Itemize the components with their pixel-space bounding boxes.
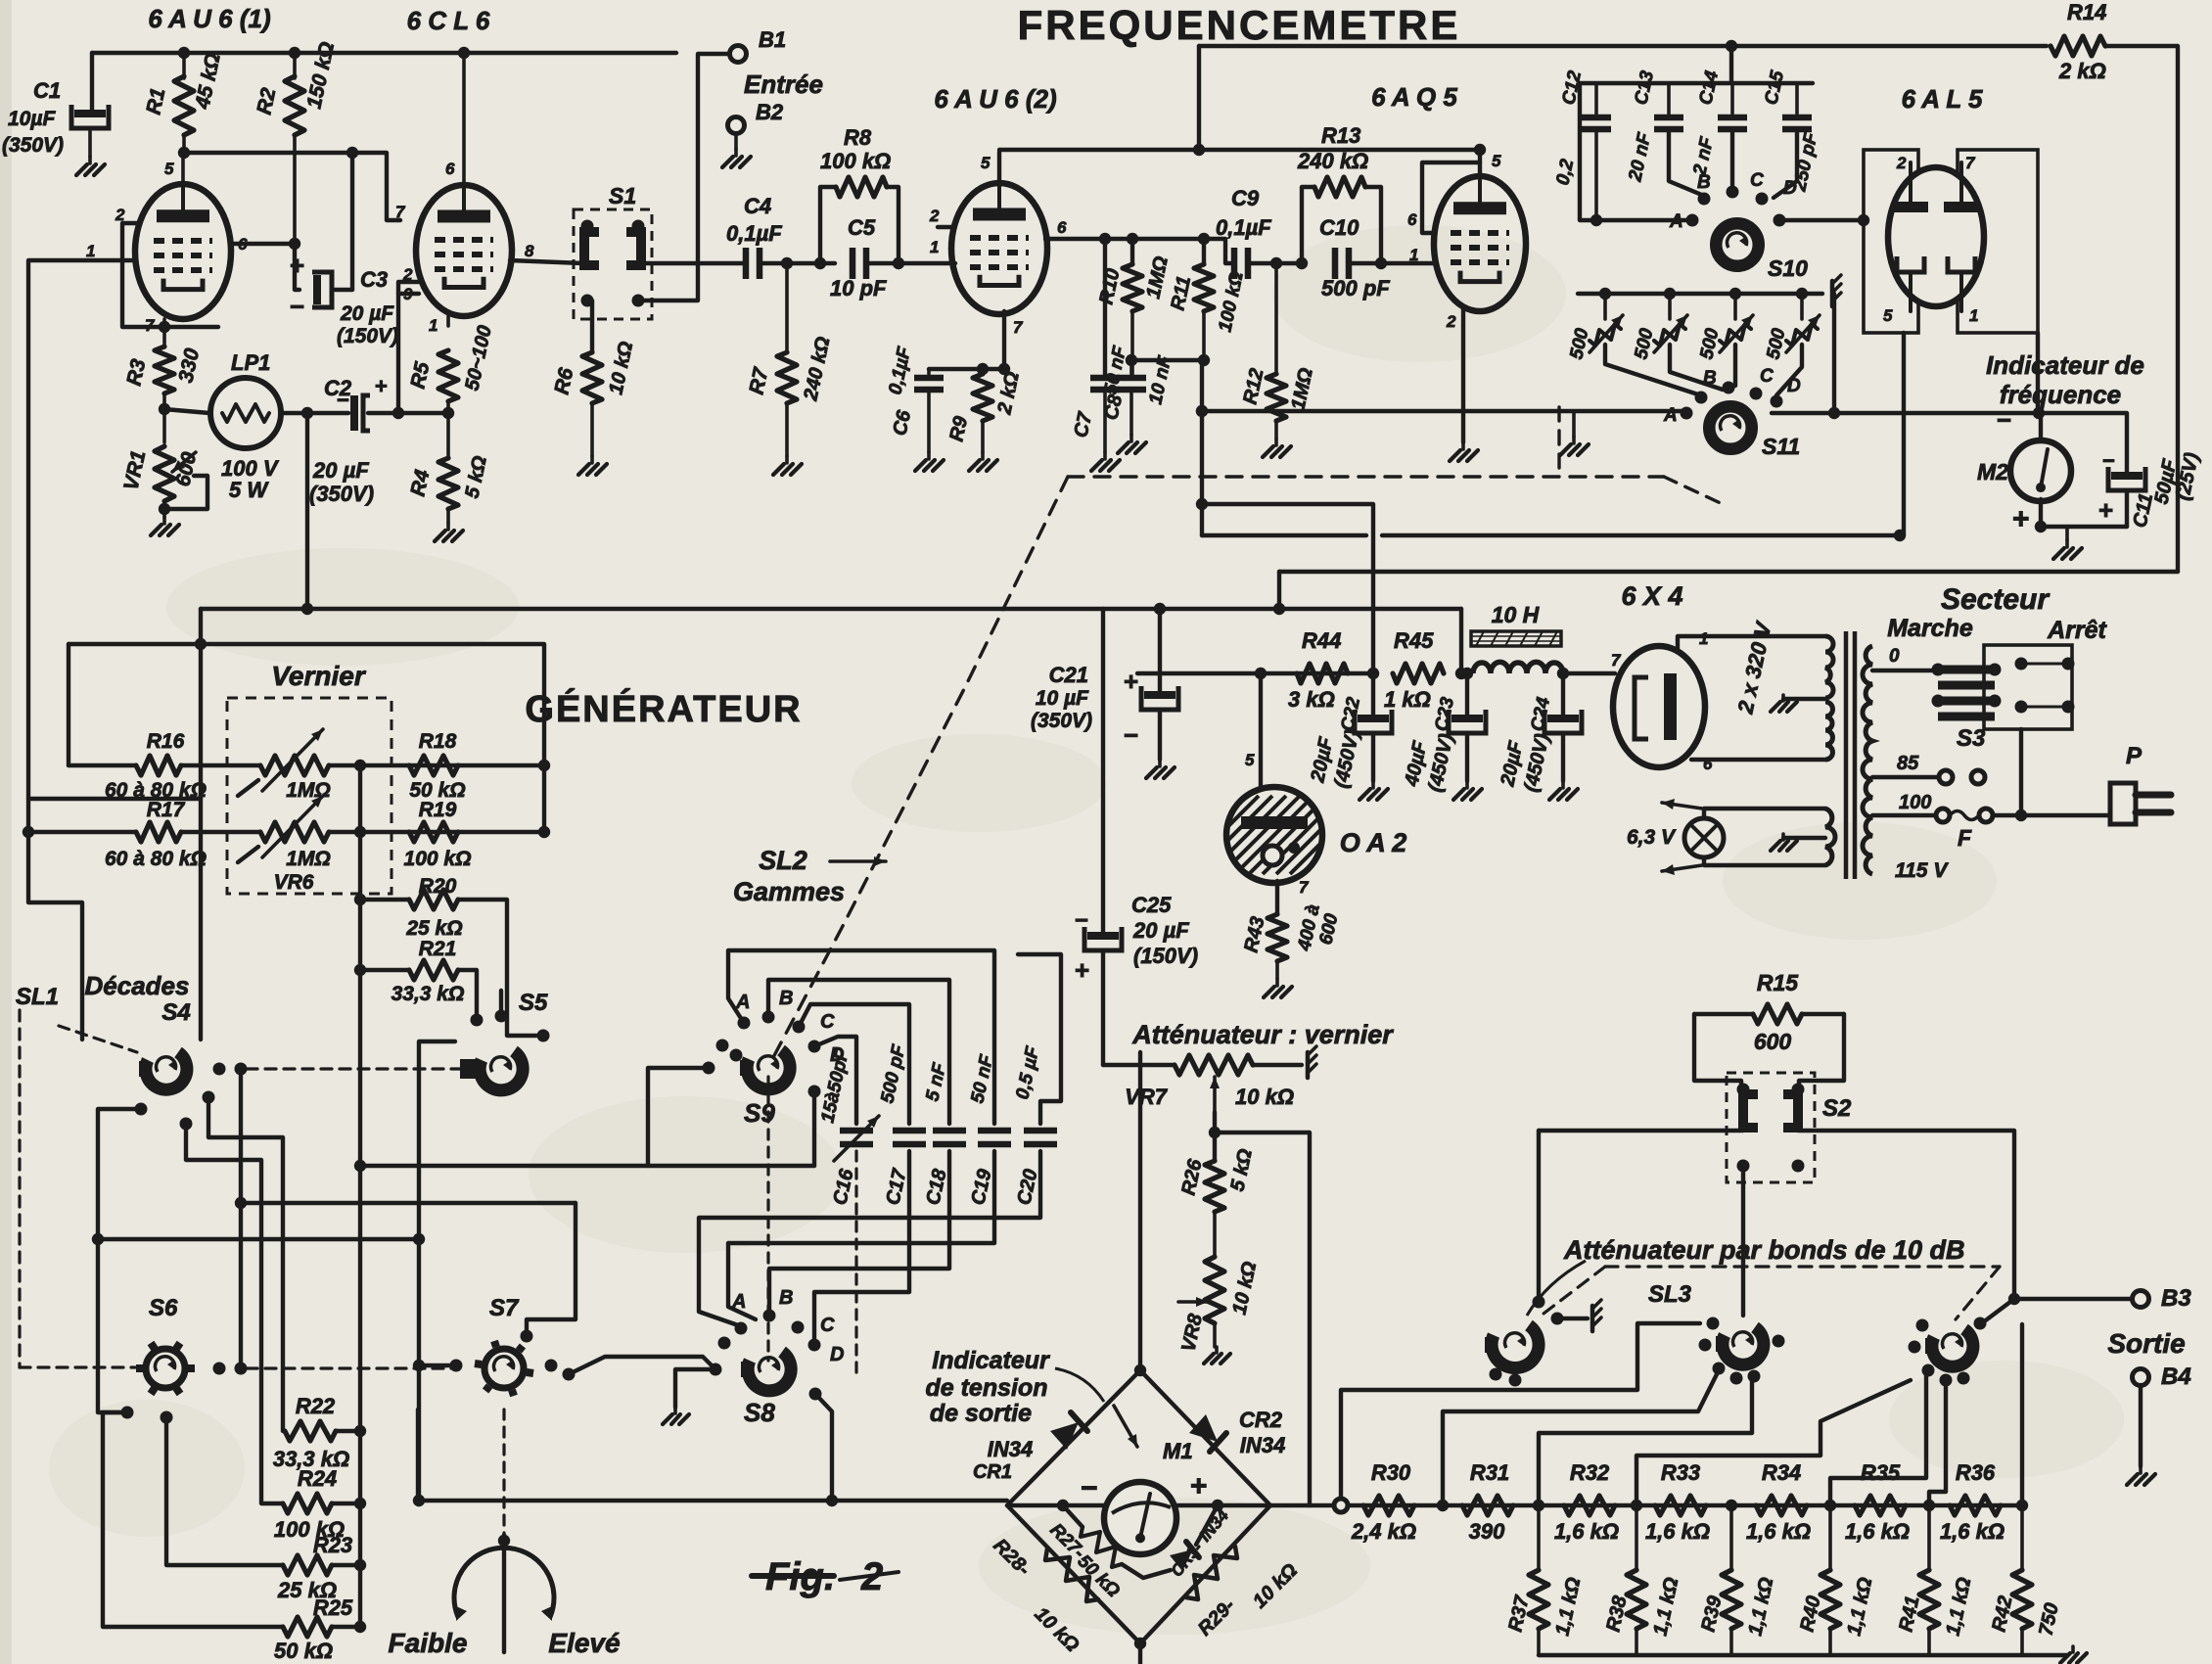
wire R10/R11 bottom bus <box>1131 358 1204 362</box>
svg-text:60 à 80 kΩ: 60 à 80 kΩ <box>105 848 207 870</box>
resistor R34 <box>1756 1496 1807 1515</box>
wire x246 bus S4-S6 <box>239 1069 243 1368</box>
svg-text:−: − <box>290 292 304 321</box>
wire S6 bottom to R23 <box>166 1417 283 1565</box>
resistor R39 <box>1729 1505 1733 1570</box>
terminal B4 <box>2133 1369 2149 1386</box>
svg-text:Décades: Décades <box>85 971 190 1000</box>
meter M2 <box>2039 413 2043 443</box>
svg-text:25 kΩ: 25 kΩ <box>405 917 462 940</box>
svg-text:+: + <box>1190 1470 1208 1502</box>
svg-text:C: C <box>820 1011 835 1033</box>
svg-text:50 kΩ: 50 kΩ <box>274 1639 333 1663</box>
capacitor C13 <box>1667 83 1671 114</box>
ground 6AQ5 cathode <box>1461 442 1465 449</box>
resistor R37 <box>1537 1505 1541 1570</box>
svg-text:R35: R35 <box>1861 1460 1901 1485</box>
wire 85 tap <box>1872 775 1939 779</box>
capacitor C9 <box>1231 248 1238 279</box>
dashed SL2 shaft diagonal <box>770 477 1068 1063</box>
svg-text:B3: B3 <box>2161 1285 2191 1312</box>
wire pin2 cathode ground <box>1461 309 1465 442</box>
ground VR1 <box>162 517 166 524</box>
node R1 plate <box>178 147 190 159</box>
switch SL3 rotary 1 <box>1537 1131 1541 1302</box>
svg-text:−: − <box>337 388 349 412</box>
resistor R6 <box>587 300 592 352</box>
lamp 6.3V <box>1704 809 1825 818</box>
node C9 out <box>1270 257 1282 269</box>
svg-text:6 A L 5: 6 A L 5 <box>1902 84 1983 114</box>
wire y1191 link <box>360 1164 814 1168</box>
capacitor C17 <box>893 1128 926 1134</box>
svg-text:R18: R18 <box>419 730 457 753</box>
wire R15 box <box>1694 1014 1741 1088</box>
transformer 6.3V winding <box>1825 809 1835 865</box>
node C2 left junction <box>301 407 313 419</box>
capacitor C3 <box>295 244 300 290</box>
capacitor C12 <box>1594 83 1598 114</box>
svg-text:1,6 kΩ: 1,6 kΩ <box>1554 1519 1619 1544</box>
svg-text:B: B <box>779 1287 793 1309</box>
svg-text:7: 7 <box>1013 318 1024 337</box>
wire S4 contact drops <box>208 1097 283 1431</box>
capacitor C19 <box>978 1128 1011 1134</box>
ground C24 <box>1561 781 1565 788</box>
wire 6X4 pin1 <box>1678 636 1825 650</box>
ground pots bus <box>1830 281 1835 306</box>
resistor R15 <box>1694 1012 1753 1016</box>
svg-text:P: P <box>2126 743 2143 769</box>
svg-text:R8: R8 <box>844 125 872 150</box>
potentiometer VR7 <box>1103 1063 1173 1067</box>
tube 6AU6(2) V3 <box>951 183 1047 314</box>
switch S11 contacts <box>1681 407 1693 420</box>
svg-text:CR1: CR1 <box>973 1461 1012 1483</box>
wire y1266 link <box>98 1237 419 1241</box>
svg-text:85: 85 <box>1897 753 1919 774</box>
wire pots bus to M2 line <box>1832 294 1836 413</box>
ground C22 <box>1371 781 1375 788</box>
svg-text:C1: C1 <box>33 78 61 103</box>
wire S9 nest D to C16 <box>814 1037 856 1124</box>
capacitor C21 <box>1154 603 1166 615</box>
svg-text:+: + <box>1075 955 1089 985</box>
svg-text:A: A <box>731 1291 746 1313</box>
switch S10 <box>1686 214 1699 227</box>
ground stub on S11 feed <box>1572 411 1576 437</box>
wire rotary3 right drop <box>2020 1324 2024 1505</box>
wire 6X4 pin6 <box>1691 758 1825 762</box>
wire pin5 riser <box>1478 150 1482 178</box>
wire attenuator nest 5 <box>1830 1374 1926 1505</box>
svg-text:B: B <box>1703 368 1717 389</box>
svg-text:(350V): (350V) <box>1031 710 1092 732</box>
resistor R43 <box>1275 881 1279 914</box>
tube 6X4 V6 <box>1613 646 1705 767</box>
ground C8 <box>1129 435 1133 441</box>
svg-text:C4: C4 <box>744 194 771 218</box>
svg-text:CR2: CR2 <box>1239 1408 1283 1432</box>
terminal ladder input <box>1334 1499 1348 1512</box>
svg-text:R33: R33 <box>1661 1460 1700 1485</box>
svg-text:VR6: VR6 <box>274 871 314 894</box>
svg-text:6: 6 <box>445 160 455 178</box>
svg-text:−: − <box>2102 448 2115 473</box>
switch S6 <box>146 1349 185 1388</box>
svg-text:20 µF: 20 µF <box>312 458 369 483</box>
resistor R18 <box>409 756 458 775</box>
capacitor C5 <box>850 248 856 279</box>
svg-text:R14: R14 <box>2067 0 2106 24</box>
svg-text:5: 5 <box>981 154 991 172</box>
svg-text:2: 2 <box>929 207 940 225</box>
svg-text:Elevé: Elevé <box>548 1628 620 1658</box>
svg-text:C9: C9 <box>1231 186 1260 210</box>
svg-text:A: A <box>1669 211 1683 232</box>
svg-text:R22: R22 <box>296 1394 336 1418</box>
diode CR2 <box>1189 1414 1218 1442</box>
svg-text:de tension: de tension <box>925 1374 1047 1402</box>
wire 6AL5 left box bottom <box>1902 333 1906 535</box>
svg-text:240 kΩ: 240 kΩ <box>1297 149 1368 173</box>
resistor R36 <box>1950 1496 2001 1515</box>
capacitor C7 <box>1103 239 1107 374</box>
svg-text:Faible: Faible <box>389 1628 468 1658</box>
svg-text:S8: S8 <box>744 1398 775 1427</box>
svg-text:C: C <box>1750 170 1764 191</box>
svg-text:5: 5 <box>1245 751 1255 769</box>
svg-text:0: 0 <box>1889 646 1900 667</box>
tube OA2 <box>1259 673 1263 789</box>
svg-text:100 kΩ: 100 kΩ <box>404 848 472 870</box>
capacitor C16 variable <box>840 1128 873 1134</box>
resistor R35 <box>1855 1496 1906 1515</box>
svg-text:2 kΩ: 2 kΩ <box>2058 59 2106 83</box>
ground C7 <box>1103 452 1107 459</box>
svg-text:R25: R25 <box>313 1595 353 1620</box>
svg-text:0,1µF: 0,1µF <box>726 221 782 246</box>
capacitor C10 <box>1332 248 1339 279</box>
resistor R30 <box>1363 1496 1414 1515</box>
wire pin2 stub <box>938 225 954 229</box>
wire rotary1 lower contacts <box>1490 1368 1502 1381</box>
resistor R3 <box>155 347 174 393</box>
switch S11 <box>1712 409 1749 446</box>
svg-text:R17: R17 <box>147 799 186 821</box>
svg-text:+: + <box>1124 667 1138 696</box>
wire y816 link <box>28 797 201 801</box>
svg-text:Indicateur de: Indicateur de <box>1986 350 2144 380</box>
svg-text:1,6 kΩ: 1,6 kΩ <box>1845 1519 1910 1544</box>
svg-text:S4: S4 <box>161 999 190 1026</box>
wire ladder bus <box>1348 1503 2022 1507</box>
wire S6 left to R25 <box>103 1412 283 1627</box>
svg-text:R21: R21 <box>419 938 457 960</box>
capacitor C22 <box>1371 673 1375 715</box>
wire main bus y622 <box>201 607 1461 611</box>
svg-text:(150V): (150V) <box>337 325 398 347</box>
wire x205 riser <box>199 609 203 1040</box>
capacitor C4 <box>743 248 750 279</box>
wire row A <box>67 644 70 765</box>
svg-text:5: 5 <box>1883 306 1893 325</box>
wire pin7 cathode <box>929 311 1004 369</box>
wire S9 left contact <box>648 1068 709 1166</box>
wire attenuator nest left <box>1341 1323 1700 1498</box>
resistor R44 <box>1297 664 1348 683</box>
svg-text:GÉNÉRATEUR: GÉNÉRATEUR <box>525 687 802 730</box>
resistor R25 <box>283 1617 332 1637</box>
ground R4 <box>446 523 450 530</box>
svg-text:de sortie: de sortie <box>930 1400 1032 1427</box>
svg-text:5: 5 <box>1492 152 1501 170</box>
potentiometer VR6 <box>260 822 329 842</box>
wire supply loop y515 <box>1202 504 1373 673</box>
svg-text:3 kΩ: 3 kΩ <box>1288 687 1335 712</box>
svg-text:Vernier: Vernier <box>271 661 367 691</box>
wire supply loop y547 <box>1202 533 1366 537</box>
svg-text:−: − <box>1124 720 1138 750</box>
ground C6 <box>927 452 931 459</box>
svg-text:S2: S2 <box>1822 1095 1852 1122</box>
ground 6.3V CT <box>1783 836 1825 840</box>
capacitor C20 <box>1024 1128 1057 1134</box>
svg-text:Arrêt: Arrêt <box>2047 617 2107 644</box>
svg-text:B4: B4 <box>2161 1364 2191 1390</box>
svg-text:IN34: IN34 <box>988 1437 1033 1461</box>
svg-text:C3: C3 <box>360 267 388 292</box>
svg-text:7: 7 <box>1299 878 1310 897</box>
resistor R28 on arm <box>1045 1548 1098 1601</box>
resistor R13 <box>1296 257 1308 269</box>
wire pin6 bus <box>1045 239 1231 263</box>
wire bridge mid <box>1007 1503 1270 1507</box>
wire to ladder <box>1215 1132 1333 1505</box>
transformer primary <box>1825 636 1833 698</box>
switch S3 <box>1984 645 2072 729</box>
svg-text:1,6 kΩ: 1,6 kΩ <box>1940 1519 2005 1544</box>
wire supply loop y584 <box>1279 570 2178 574</box>
potentiometer VR8 <box>1205 1257 1224 1323</box>
svg-text:10 kΩ: 10 kΩ <box>1235 1085 1294 1109</box>
resistor R9 <box>981 369 985 374</box>
svg-text:B: B <box>1697 172 1711 193</box>
wire pin8 to S1 <box>510 260 583 263</box>
svg-text:S1: S1 <box>609 183 636 208</box>
svg-text:5: 5 <box>164 160 174 178</box>
dashed S4-S5 linkage <box>247 1067 464 1070</box>
svg-text:600: 600 <box>1754 1029 1792 1054</box>
svg-text:6 A U 6 (1): 6 A U 6 (1) <box>148 4 270 33</box>
wire pot outputs <box>1605 345 1701 395</box>
svg-text:S11: S11 <box>1762 434 1800 459</box>
ground C1 <box>88 157 92 163</box>
svg-text:D: D <box>1787 376 1801 396</box>
resistor R14 <box>2051 36 2105 56</box>
svg-text:6 X 4: 6 X 4 <box>1621 581 1682 611</box>
diode CR1 <box>1050 1422 1079 1450</box>
resistor R12 <box>1274 263 1278 374</box>
wire attenuator nest 4 <box>1636 1380 1911 1505</box>
terminal B2 <box>728 117 745 134</box>
svg-text:Sortie: Sortie <box>2107 1328 2185 1359</box>
svg-text:20 µF: 20 µF <box>1132 918 1189 943</box>
capacitor C23 <box>1465 673 1469 715</box>
svg-text:Marche: Marche <box>1887 615 1973 642</box>
svg-text:1: 1 <box>429 316 438 335</box>
wire S8 output drop <box>815 1394 832 1501</box>
svg-text:F: F <box>1958 825 1972 851</box>
resistor R42 <box>2020 1505 2024 1570</box>
svg-text:+: + <box>2098 495 2113 525</box>
svg-text:1: 1 <box>1699 629 1708 648</box>
svg-text:10 H: 10 H <box>1492 602 1540 627</box>
svg-text:(350V): (350V) <box>309 482 374 506</box>
svg-text:R30: R30 <box>1371 1460 1411 1485</box>
potentiometer 500 #2 <box>1668 294 1672 319</box>
svg-text:Indicateur: Indicateur <box>932 1347 1050 1374</box>
resistor R38 <box>1635 1505 1638 1570</box>
svg-text:R36: R36 <box>1956 1460 1996 1485</box>
node R5/R4 <box>442 407 454 419</box>
ground primary CT <box>1783 697 1825 701</box>
svg-text:500 pF: 500 pF <box>1321 276 1390 300</box>
svg-text:O A 2: O A 2 <box>1340 828 1407 857</box>
switch S2 <box>1727 1073 1815 1182</box>
svg-text:C: C <box>1760 366 1774 387</box>
capacitor C14 <box>1730 83 1734 114</box>
wire R11 node to supply <box>1200 360 1204 535</box>
meter M1 <box>1114 1406 1137 1447</box>
svg-text:S7: S7 <box>489 1295 520 1321</box>
dashed S9-S8 shaft <box>766 1077 769 1361</box>
wire ladder frame <box>69 644 544 832</box>
ground R12 <box>1274 439 1278 445</box>
resistor R32 <box>1564 1496 1615 1515</box>
potentiometer VR5 <box>260 756 329 775</box>
plug P <box>2110 783 2136 824</box>
wire bridge bottom <box>1138 1643 1142 1664</box>
resistor R20 <box>360 898 408 901</box>
wire S10 out to 6AL5 <box>1779 218 1864 222</box>
switch S5 <box>460 1059 476 1079</box>
svg-text:R44: R44 <box>1302 628 1341 653</box>
ground M2 <box>2065 527 2069 540</box>
svg-text:1,6 kΩ: 1,6 kΩ <box>1746 1519 1811 1544</box>
terminal B1 <box>730 46 747 63</box>
svg-text:6,3 V: 6,3 V <box>1627 826 1677 849</box>
svg-text:C10: C10 <box>1319 215 1359 240</box>
svg-text:M2: M2 <box>1977 459 2008 485</box>
svg-text:10µF: 10µF <box>8 108 56 130</box>
wire x1307 drop <box>1277 572 1281 609</box>
wire pin6 hook <box>1422 162 1480 233</box>
resistor R17 <box>136 822 181 842</box>
svg-text:7: 7 <box>1965 154 1976 172</box>
svg-text:R15: R15 <box>1757 970 1799 995</box>
wire y1229 link <box>241 1201 576 1205</box>
svg-text:+: + <box>375 374 388 398</box>
potentiometer VR1 <box>162 409 166 442</box>
dashed S6-S7 linkage <box>247 1366 456 1369</box>
svg-text:D: D <box>830 1344 844 1365</box>
svg-text:Gammes: Gammes <box>733 877 845 906</box>
capacitor C18 <box>933 1128 966 1134</box>
svg-text:SL1: SL1 <box>16 984 59 1010</box>
wire pin6 to bus <box>462 53 466 187</box>
wire B3 <box>2014 1297 2131 1301</box>
svg-text:390: 390 <box>1469 1519 1505 1544</box>
resistor R31 <box>1462 1496 1513 1515</box>
wire ladder bottom bus <box>1539 1653 2067 1657</box>
svg-text:1MΩ: 1MΩ <box>286 848 331 870</box>
svg-text:115 V: 115 V <box>1895 859 1949 882</box>
svg-text:7: 7 <box>395 203 406 221</box>
wire VR7 wiper down <box>1213 1112 1217 1132</box>
wire S8 left to ground <box>675 1369 715 1408</box>
svg-text:R19: R19 <box>419 799 457 821</box>
wire choke to 6X4 pin7 <box>1563 671 1615 675</box>
svg-text:R32: R32 <box>1570 1460 1610 1485</box>
svg-text:FREQUENCEMETRE: FREQUENCEMETRE <box>1018 2 1461 48</box>
svg-text:R31: R31 <box>1470 1460 1509 1485</box>
resistor R45 <box>1393 664 1444 683</box>
svg-text:B1: B1 <box>759 27 786 52</box>
svg-text:M1: M1 <box>1163 1439 1193 1463</box>
wire S7 left contact <box>419 1364 456 1367</box>
resistor R40 <box>1828 1505 1832 1570</box>
capacitor C11 <box>2039 413 2127 472</box>
wire caps bottom nest to S8 <box>699 1151 1040 1326</box>
bridge diamond <box>1007 1370 1270 1643</box>
resistor R23 <box>283 1555 332 1575</box>
svg-text:A: A <box>1663 405 1678 426</box>
tube 6CL6 V2 <box>416 185 512 316</box>
tube 6AU6(1) V1 <box>135 184 231 319</box>
ground C23 <box>1465 781 1469 788</box>
wire attenuator nest 2 <box>1443 1370 1719 1505</box>
svg-text:SL3: SL3 <box>1648 1281 1692 1308</box>
dashed linkage drop <box>1557 407 1560 477</box>
wire S11 feed <box>1202 409 1686 413</box>
wire plate/grid bus <box>184 153 400 220</box>
svg-text:B: B <box>779 988 793 1009</box>
resistor R24 <box>283 1494 332 1513</box>
potentiometer 500 #1 <box>1603 294 1607 319</box>
resistor R41 <box>1927 1505 1931 1570</box>
resistor R22 <box>285 1421 336 1441</box>
dashed C16 trimmer link <box>854 1151 857 1380</box>
svg-text:1: 1 <box>1969 306 1978 325</box>
wire S5 top contacts <box>499 991 503 1016</box>
ground C21 <box>1158 760 1162 766</box>
ground S8 <box>673 1408 677 1413</box>
dashed SL1 linkage <box>18 1010 21 1367</box>
svg-text:6: 6 <box>1407 210 1417 229</box>
svg-text:10 pF: 10 pF <box>830 276 887 300</box>
wire C3 riser <box>350 153 354 290</box>
svg-text:33,3 kΩ: 33,3 kΩ <box>392 983 465 1005</box>
dashed SL3 linkage <box>1605 1265 2000 1268</box>
resistor R8 <box>814 257 826 269</box>
resistor R7 <box>785 263 789 352</box>
svg-text:1: 1 <box>930 238 939 256</box>
wire S3 drop <box>2019 729 2023 815</box>
svg-text:2: 2 <box>1896 154 1907 172</box>
svg-text:R23: R23 <box>313 1533 352 1557</box>
wire cap bank bus <box>1729 46 1733 83</box>
